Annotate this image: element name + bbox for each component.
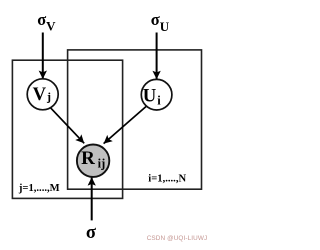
svg-text:V: V	[46, 19, 56, 34]
svg-text:CSDN @UQI-LIUWJ: CSDN @UQI-LIUWJ	[147, 235, 208, 242]
svg-text:V: V	[33, 84, 47, 105]
svg-text:σ: σ	[86, 223, 96, 243]
wire sigma to Rij	[91, 177, 93, 220]
svg-text:U: U	[143, 86, 157, 107]
wire Ui to Rij	[104, 104, 150, 144]
svg-text:j=1,....,M: j=1,....,M	[18, 183, 60, 194]
svg-text:U: U	[160, 19, 170, 34]
wire sigmaU to Ui	[156, 33, 158, 80]
svg-text:σ: σ	[37, 10, 46, 29]
svg-text:i=1,....,N: i=1,....,N	[148, 174, 186, 185]
wire sigmaV to Vj	[42, 33, 44, 80]
node Vj	[27, 79, 58, 110]
svg-text:j: j	[46, 90, 51, 104]
svg-text:i: i	[157, 93, 161, 107]
plate j=1..M (left rectangle)	[12, 60, 122, 198]
svg-text:σ: σ	[151, 10, 160, 29]
svg-text:ij: ij	[98, 156, 106, 170]
wire Vj to Rij	[49, 106, 84, 143]
node Ui	[141, 79, 172, 110]
svg-text:R: R	[81, 148, 95, 169]
plate i=1..N (right rectangle)	[68, 50, 202, 189]
node Rij (shaded)	[77, 145, 109, 177]
